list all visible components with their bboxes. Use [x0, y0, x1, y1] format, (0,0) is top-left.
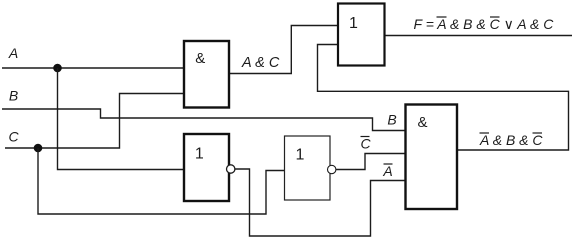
svg-text:A: A — [8, 45, 18, 61]
or-gate U2 box — [338, 4, 385, 66]
overbar output label A — [480, 132, 490, 134]
wire AND1 output A&C to OR pin1 — [229, 26, 338, 74]
wire A branch down to NOT1 input — [58, 68, 185, 170]
svg-text:B: B — [9, 88, 18, 104]
svg-text:1: 1 — [195, 146, 204, 163]
wire AND2 output to OR pin2 — [318, 45, 569, 151]
svg-text:C: C — [360, 136, 371, 152]
not-gate U3 box — [184, 134, 229, 201]
wire NOT2 output to AND2 pin C-bar — [336, 154, 406, 170]
not-gate U3 inversion bubble — [227, 165, 235, 173]
svg-text:&: & — [417, 114, 427, 131]
overbar for pin A-bar — [384, 163, 393, 165]
overbar for pin C-bar — [361, 136, 370, 138]
wire C branch down to NOT2 input — [38, 148, 285, 214]
and-gate U5 box — [406, 105, 458, 210]
svg-text:1: 1 — [296, 147, 305, 164]
svg-text:A: A — [382, 163, 392, 179]
wire input B to AND2 pin B — [2, 109, 406, 131]
not-gate U4 box — [285, 136, 331, 200]
node junction on C — [34, 144, 43, 153]
wire input C to AND1 lower pin — [5, 94, 184, 149]
not-gate U4 inversion bubble — [328, 165, 336, 173]
overbar F formula C — [490, 16, 500, 18]
wire NOT1 output to AND2 pin A-bar — [235, 169, 406, 236]
overbar output label C — [533, 132, 543, 134]
node junction on A — [53, 64, 62, 73]
wire OR output F — [385, 35, 572, 37]
svg-text:A & B & C: A & B & C — [479, 132, 543, 148]
svg-text:C: C — [8, 129, 19, 145]
svg-text:A & C: A & C — [241, 55, 280, 71]
overbar F formula A — [437, 16, 447, 18]
and-gate U1 box — [184, 41, 229, 108]
svg-text:1: 1 — [349, 15, 358, 32]
wire input A horizontal — [2, 67, 184, 69]
svg-text:B: B — [387, 112, 396, 128]
svg-text:&: & — [195, 50, 205, 67]
svg-text:F = A & B & C ∨ A & C: F = A & B & C ∨ A & C — [414, 16, 555, 32]
